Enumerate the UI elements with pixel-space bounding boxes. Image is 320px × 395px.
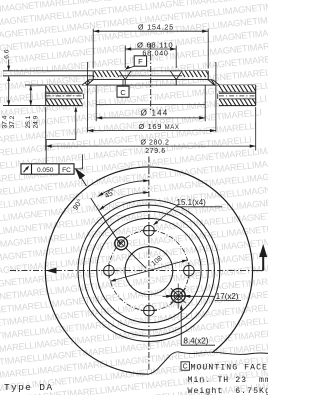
circle braking band outer — [78, 200, 220, 342]
ring outer edge right — [255, 85, 257, 106]
dim 154 ext left — [92, 29, 94, 69]
dim line 6.6/37.4 vertical — [8, 60, 10, 71]
flange left edge — [92, 71, 94, 80]
front view horizontal centerline — [10, 270, 254, 272]
bore wall left — [124, 80, 126, 86]
bore chamfer left outer — [119, 71, 125, 80]
label 15.1 underline — [176, 206, 223, 208]
pin hole upper-left — [115, 237, 128, 250]
dim line dia108 — [110, 260, 187, 281]
runout leader arrow — [74, 106, 77, 111]
svg-text:279.6: 279.6 — [145, 148, 166, 155]
right ring plate2 hatch — [219, 99, 256, 106]
arrow 6.6 bottom — [7, 76, 10, 81]
svg-text:8.4(x2): 8.4(x2) — [184, 336, 209, 345]
hat wall right (dia144 extension) — [204, 85, 206, 121]
arrow 25.1 top — [29, 85, 32, 90]
svg-text:FC: FC — [62, 167, 71, 174]
dim line dia68 — [125, 48, 176, 50]
dia arrow on centerline left — [46, 268, 57, 274]
datum C leader — [122, 80, 124, 86]
centerline elbow — [254, 270, 264, 272]
center bore dia68 — [125, 247, 173, 295]
radial line through pin hole — [126, 248, 146, 268]
left ring vent centerline — [46, 95, 83, 97]
neck outer diagonal left — [82, 80, 89, 85]
neck wedge left hatch — [82, 80, 93, 85]
dim 108 arrow lower-left — [110, 278, 116, 281]
break line — [149, 352, 268, 374]
rotation arrow — [259, 244, 267, 257]
dim 25.1 ext — [25, 84, 46, 86]
angle arc inner — [99, 192, 149, 210]
right ring vent closure — [217, 94, 219, 99]
datum F arrow — [125, 65, 130, 70]
datum F box — [134, 56, 146, 66]
angle arc outer arrow 2 — [143, 179, 149, 182]
dim 280 ext left — [45, 107, 47, 151]
svg-text:6.6: 6.6 — [3, 49, 10, 58]
neck outer diagonal right — [213, 80, 220, 85]
dim 108 arrow upper-right — [182, 260, 188, 263]
dim 280 arrow left — [46, 145, 52, 148]
dim 154 ext right — [207, 29, 209, 69]
svg-text:37.2: 37.2 — [9, 115, 16, 128]
leader 8.4 arrow — [180, 304, 183, 310]
front view vertical centerline — [148, 157, 150, 372]
dim 144 arrow right — [199, 116, 205, 119]
svg-text:Ø 144: Ø 144 — [141, 109, 169, 118]
ring outer edge left — [45, 85, 47, 106]
svg-text:Ø 154.25: Ø 154.25 — [138, 25, 174, 32]
runout frame — [21, 164, 74, 174]
left ring vent closure — [83, 94, 85, 99]
dim 169 ext left — [86, 62, 88, 132]
right ring vent line — [219, 93, 256, 95]
hat step line — [93, 79, 208, 81]
right ring plate2 top line — [219, 98, 256, 100]
svg-text:C: C — [183, 364, 188, 371]
runout frame divider 1 — [31, 164, 33, 174]
left ring plate2 hatch — [46, 99, 83, 106]
svg-text:Type DA: Type DA — [4, 382, 53, 393]
neck step stub right — [208, 79, 213, 81]
svg-text:17(x2): 17(x2) — [216, 292, 239, 301]
outer circle dia280 — [45, 167, 252, 374]
bore chamfer left inner — [125, 71, 131, 80]
bore wall right — [175, 80, 177, 86]
flange right edge — [207, 71, 209, 80]
dim 17 arrow left — [166, 295, 172, 298]
svg-text:MOUNTING FACE: MOUNTING FACE — [191, 364, 269, 373]
runout leader to ring underside — [46, 108, 76, 164]
arrow 37.4 bottom — [7, 100, 10, 105]
dim 68 arrow right — [170, 47, 176, 50]
neck inner diagonal right — [208, 80, 214, 85]
bore chamfer right outer — [176, 71, 182, 80]
dim line dia280 — [46, 145, 256, 147]
hat wall left (dia144 extension) — [95, 85, 97, 121]
flange underside line + left extension — [3, 75, 208, 77]
left ring bottom line — [46, 105, 83, 107]
dim line dia154.25 — [93, 30, 208, 32]
disc centerline (section view) — [150, 43, 152, 111]
runout leader stub right — [74, 155, 83, 169]
leader 15.1 — [155, 207, 176, 224]
circle dia169 — [89, 211, 208, 330]
svg-text:25.1: 25.1 — [25, 115, 32, 128]
datum line 52deg upper — [76, 169, 87, 186]
dim line 25.1 vertical — [30, 85, 32, 106]
flange section hatch (left of bore) — [93, 71, 119, 77]
dim 68 ext left — [124, 46, 126, 68]
label 17 underline — [215, 299, 241, 301]
dim line vertical lower part — [8, 76, 10, 106]
svg-text:Min. TH 23 mm: Min. TH 23 mm — [188, 375, 269, 385]
dim 280 arrow right — [250, 145, 256, 148]
bolt circle dia108 (dashed) — [109, 231, 189, 311]
dim 17 arrow right — [185, 295, 191, 298]
hat bottom edge line — [96, 104, 205, 106]
dim 280 ext right — [255, 107, 257, 151]
datum line arrow — [75, 168, 85, 180]
angle arc inner arrow 2 — [143, 191, 149, 194]
label 8.4 underline — [181, 344, 215, 346]
leader 8.4 — [180, 307, 182, 346]
dim line dia169 — [87, 130, 216, 132]
right ring plate1 bottom line — [219, 91, 256, 93]
rotation arrow stem — [262, 257, 264, 271]
dim 144 arrow left — [96, 116, 102, 119]
bolt hole top — [141, 223, 157, 239]
dim 154 arrow right — [202, 30, 208, 33]
pin hole lower-right — [167, 284, 191, 309]
neck inner diagonal left — [87, 80, 93, 85]
angle arc outer arrow 1 — [98, 192, 103, 196]
ring top surface line — [25, 84, 256, 86]
ring bottom extension (left) — [3, 105, 46, 107]
dim 169 ext right — [215, 62, 217, 132]
neck step stub left — [89, 79, 94, 81]
neck wedge right hatch — [208, 80, 219, 85]
right ring vent centerline — [219, 95, 256, 97]
dim 68 arrow left — [125, 47, 131, 50]
svg-text:37.4: 37.4 — [2, 115, 9, 128]
bore chamfer right inner — [170, 71, 176, 80]
angle arc outer — [98, 181, 149, 197]
bolt hole right — [181, 263, 197, 279]
svg-text:C: C — [120, 88, 126, 97]
svg-text:Weight 6.75Kg: Weight 6.75Kg — [188, 386, 269, 395]
arrow 25.1 bottom — [29, 100, 32, 105]
svg-text:24.9: 24.9 — [32, 115, 39, 128]
mounting face datum box — [181, 362, 189, 370]
svg-text:15.1(x4): 15.1(x4) — [177, 198, 207, 207]
bolt hole bottom — [141, 303, 157, 319]
circle braking band — [83, 205, 214, 336]
left ring plate2 top line — [46, 98, 83, 100]
svg-text:Ø 280.2: Ø 280.2 — [140, 139, 169, 146]
datum line 52deg lower — [91, 198, 121, 244]
left ring plate1 bottom line — [46, 91, 83, 93]
datum F leader — [126, 66, 134, 69]
left ring plate1 hatch — [46, 85, 83, 92]
angle arc inner arrow 1 — [99, 206, 104, 211]
arrow 6.6 top — [7, 66, 10, 71]
mounting face line + left extension — [3, 70, 208, 72]
right ring plate1 hatch — [219, 85, 256, 92]
svg-text:0.050: 0.050 — [37, 167, 54, 174]
flange section hatch (right of bore) — [182, 71, 208, 77]
dim 169 arrow right — [210, 129, 216, 132]
datum C box — [117, 86, 129, 97]
circle dia144 (hat) — [97, 218, 201, 322]
bolt hole left — [101, 263, 117, 279]
runout frame divider 2 — [58, 164, 60, 174]
left ring vent line — [46, 93, 83, 95]
dim 68 ext right — [175, 46, 177, 68]
runout symbol — [24, 166, 30, 172]
leader 17 line — [163, 295, 216, 297]
right ring bottom line — [219, 105, 256, 107]
svg-text:F: F — [138, 57, 143, 66]
dim 154 arrow left — [93, 30, 99, 33]
dim 169 arrow left — [87, 129, 93, 132]
dim line dia144 — [96, 117, 205, 119]
leader 15.1 arrow — [153, 221, 158, 226]
